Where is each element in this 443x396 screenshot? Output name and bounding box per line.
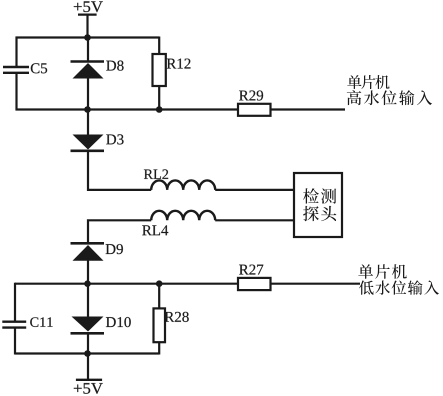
label 低水位输入 [359,280,439,294]
label RL2 [144,169,168,178]
label 单片机 (high) [347,75,389,89]
resistor R27 [238,278,271,290]
wire D8 to node A [87,78,89,111]
+5V top power symbol [78,13,97,15]
inductor RL4 [151,211,215,221]
label D9 [106,244,123,254]
junction node B / D9 [84,280,91,287]
wire RL4 to D9 [88,220,151,243]
label 检测 [303,188,336,203]
label R29 [239,90,263,100]
wire R28 bottom lead [158,342,160,354]
capacitor C5 [3,67,29,73]
wire node A rail [16,108,346,110]
wire node B rail [15,283,360,285]
label R12 [167,59,191,69]
label C5 [31,63,47,73]
label 探头 [303,206,336,221]
diode D9 [71,243,105,260]
wire +5V to top rail [86,15,88,39]
label 高水位输入 [347,90,432,105]
resistor R12 [153,54,166,86]
wire D3 to RL2 [88,151,151,190]
resistor R29 [238,104,271,116]
+5V bottom power symbol [76,379,102,381]
label RL4 [142,225,168,235]
diode D3 [71,135,105,151]
probe box 检测探头 [294,173,342,237]
label +5V bottom [74,383,103,394]
label +5V top [74,1,103,12]
wire RL2 to probe box [215,189,294,191]
wire node A to D3 [87,110,89,136]
wire C11 bottom lead [14,328,16,355]
diode D8 [71,62,105,79]
wire top rail to R12 [158,37,160,55]
wire D9 to node B [87,261,89,285]
junction bottom rail / D10 [84,350,91,357]
wire top rail to D8 [87,38,89,63]
wire bottom rail [15,352,159,354]
label R27 [239,265,263,275]
inductor RL2 [151,180,215,190]
wire to +5V bottom [87,354,89,380]
label D8 [106,61,123,71]
wire C5 bottom lead [15,73,17,111]
capacitor C11 [2,322,26,328]
junction node B / R28 [156,280,163,287]
junction top rail / D8 [84,34,91,41]
wire R12 to node A [158,86,160,111]
diode D10 [71,317,105,334]
wire D10 to bottom rail [87,333,89,354]
label R28 [165,312,189,322]
junction node A / R12 [156,106,163,113]
wire C5 top lead [15,37,17,68]
wire C11 top lead [14,283,16,322]
wire top rail [16,36,160,38]
junction node A / D8 [84,106,91,113]
label C11 [30,317,52,327]
label D10 [106,317,131,327]
resistor R28 [154,308,166,342]
wire probe box to RL4 [215,219,294,221]
wire node B to D10 [87,284,89,317]
label 单片机 (low) [358,264,406,279]
wire R28 top lead [158,284,160,309]
label D3 [106,134,123,144]
